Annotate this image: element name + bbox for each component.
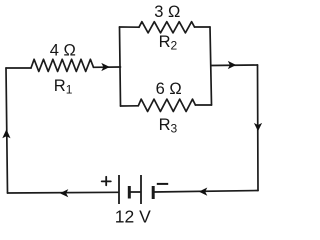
resistor R2 (139, 22, 195, 33)
battery plus terminal sign (102, 177, 111, 186)
current arrow out of node B (right-pointing) (228, 61, 236, 69)
wire top branch right (195, 26, 211, 28)
battery B1 plate negative short (left cell) (128, 186, 131, 199)
wire between battery cells (129, 191, 141, 193)
resistor R1 (31, 59, 94, 71)
current arrow on bottom wire right of battery (left-pointing) (199, 188, 208, 196)
wire bottom branch left (121, 105, 139, 107)
battery minus terminal sign (157, 183, 168, 185)
svg-text:12 V: 12 V (115, 207, 151, 227)
wire bottom right to battery (154, 191, 259, 193)
current arrow on right wire (down-pointing) (254, 123, 262, 131)
wire R1 to node A (94, 66, 121, 68)
svg-text:6 Ω: 6 Ω (156, 80, 182, 98)
wire parallel-box left vertical (120, 27, 121, 106)
wire top branch left (120, 26, 140, 28)
current arrow on left wire (up-pointing) (2, 129, 10, 138)
wire top-left to R1 (6, 67, 31, 69)
wire node B to top-right corner (211, 64, 258, 67)
wire right vertical (257, 65, 260, 191)
battery B1 plate positive long (right cell) (140, 175, 142, 204)
wire left vertical (6, 68, 8, 193)
wire bottom branch right (195, 104, 211, 106)
battery B1 plate negative short (right cell) (152, 186, 155, 199)
wire battery to bottom-left corner (8, 191, 119, 194)
svg-text:3 Ω: 3 Ω (154, 3, 180, 21)
wire parallel-box right vertical (210, 27, 212, 105)
battery B1 plate positive long (left cell) (118, 175, 120, 204)
svg-text:R3: R3 (159, 116, 178, 136)
current arrow into node A (right-pointing) (101, 63, 110, 71)
current arrow on bottom wire left of battery (left-pointing) (60, 189, 69, 197)
svg-text:R2: R2 (159, 33, 178, 53)
resistor R3 (138, 99, 195, 111)
svg-text:R1: R1 (54, 77, 73, 97)
svg-text:4 Ω: 4 Ω (50, 42, 76, 60)
